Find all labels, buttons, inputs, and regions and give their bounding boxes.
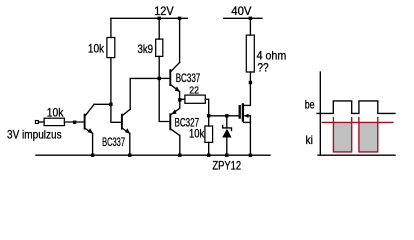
junction dot push-pull output bbox=[178, 98, 181, 101]
Q3 emitter arrowhead bbox=[175, 86, 180, 91]
transistor Q1 bbox=[84, 115, 86, 129]
svg-text:BC327: BC327 bbox=[175, 117, 200, 129]
mosfet M1 drain stub bbox=[244, 104, 251, 106]
transistor Q4 BC327 (PNP) bbox=[169, 114, 171, 129]
waveform ki gray fill pulse 2 bbox=[359, 123, 378, 152]
svg-text:BC337: BC337 bbox=[102, 137, 125, 149]
resistor R4 22 (horizontal) bbox=[180, 98, 185, 100]
wire input to R6 bbox=[38, 121, 44, 123]
mosfet body arrowhead bbox=[244, 114, 249, 118]
junction dot ground/R5 bbox=[207, 154, 210, 157]
junction dot node B (3k9/bases) bbox=[158, 77, 161, 80]
diagram bottom axis bbox=[318, 154, 395, 156]
mosfet M1 source/body vertical to ground bbox=[249, 116, 251, 155]
junction dot ground/D1 bbox=[225, 154, 228, 157]
svg-text:be: be bbox=[305, 97, 315, 111]
junction dot 12V/3k9 bbox=[158, 17, 161, 20]
resistor R1 10k (pull-up, top left) bbox=[110, 18, 112, 37]
mosfet M1 channel bar bbox=[242, 104, 244, 120]
dotted marker line 3 bbox=[358, 118, 360, 122]
mosfet M1 source stub bbox=[244, 121, 251, 123]
waveform ki red high line bbox=[322, 121, 393, 123]
junction dot ground/Q2 emitter bbox=[128, 154, 131, 157]
zener D1 triangle bbox=[222, 129, 231, 138]
svg-text:10k: 10k bbox=[88, 41, 105, 55]
junction dot R3 bottom bbox=[249, 81, 252, 84]
Q4 emitter arrowhead (PNP, points toward bar) bbox=[171, 109, 176, 114]
svg-text:3V impulzus: 3V impulzus bbox=[7, 128, 62, 142]
wire node A (R1/Q1 collector) down to Q2 base bbox=[111, 104, 121, 122]
svg-text:12V: 12V bbox=[154, 4, 174, 18]
Q2 emitter arrowhead bbox=[125, 128, 130, 134]
wire R6 to Q1 base bbox=[64, 121, 83, 123]
waveform ki red outline pulse 1 bbox=[333, 122, 351, 151]
svg-text:40V: 40V bbox=[231, 4, 251, 18]
svg-text:10k: 10k bbox=[47, 105, 64, 119]
svg-text:BC337: BC337 bbox=[176, 73, 201, 85]
junction dot ground/Q1 emitter bbox=[91, 154, 94, 157]
zener diode D1 ZPY12 bbox=[226, 116, 228, 128]
gate node wire bbox=[209, 115, 239, 117]
40V supply rail bbox=[224, 17, 262, 19]
resistor R6 10k (input, horizontal) bbox=[44, 118, 64, 125]
svg-text:ZPY12: ZPY12 bbox=[212, 158, 241, 172]
wire node B down to Q4 base bbox=[159, 78, 169, 121]
waveform ki gray fill pulse 1 bbox=[333, 123, 351, 152]
diagram vertical axis bbox=[319, 72, 321, 155]
12V supply rail bbox=[111, 17, 187, 19]
dotted marker line 4 bbox=[377, 118, 379, 122]
ground rail bbox=[36, 154, 270, 156]
junction dot gate/D1 bbox=[225, 114, 228, 117]
svg-text:ki: ki bbox=[306, 133, 313, 147]
dotted marker line 1 bbox=[332, 118, 334, 122]
waveform ki red outline pulse 2 bbox=[359, 122, 378, 151]
timing diagram axes bbox=[317, 72, 395, 155]
junction dot gate/R5 bbox=[207, 114, 210, 117]
svg-text:3k9: 3k9 bbox=[138, 42, 154, 56]
junction dot ground/M1 source bbox=[249, 154, 252, 157]
waveform be (black) bbox=[317, 101, 395, 114]
resistor R3 4 ohm (load) bbox=[249, 18, 251, 35]
Q1 emitter arrowhead bbox=[88, 128, 93, 134]
input terminal bbox=[35, 121, 38, 124]
transistor Q3 BC337 (driver, top) bbox=[159, 77, 169, 79]
svg-text:22: 22 bbox=[189, 84, 199, 96]
junction dot ground/Q4 collector bbox=[178, 154, 181, 157]
mosfet M1 gate bar bbox=[239, 106, 241, 117]
dotted marker line 2 bbox=[351, 118, 353, 122]
junction dot input/Q1 base bbox=[73, 121, 76, 124]
resistor R2 3k9 bbox=[158, 18, 160, 39]
mosfet M1 body stub bbox=[245, 115, 250, 117]
resistor R5 10k (gate to ground) bbox=[208, 116, 210, 126]
junction dot 12V/Q3 collector bbox=[178, 17, 181, 20]
svg-text:??: ?? bbox=[257, 61, 268, 75]
junction dot node A bbox=[109, 103, 112, 106]
junction dot 40V/R3 bbox=[249, 17, 252, 20]
transistor Q2 BC337 bbox=[121, 115, 123, 129]
